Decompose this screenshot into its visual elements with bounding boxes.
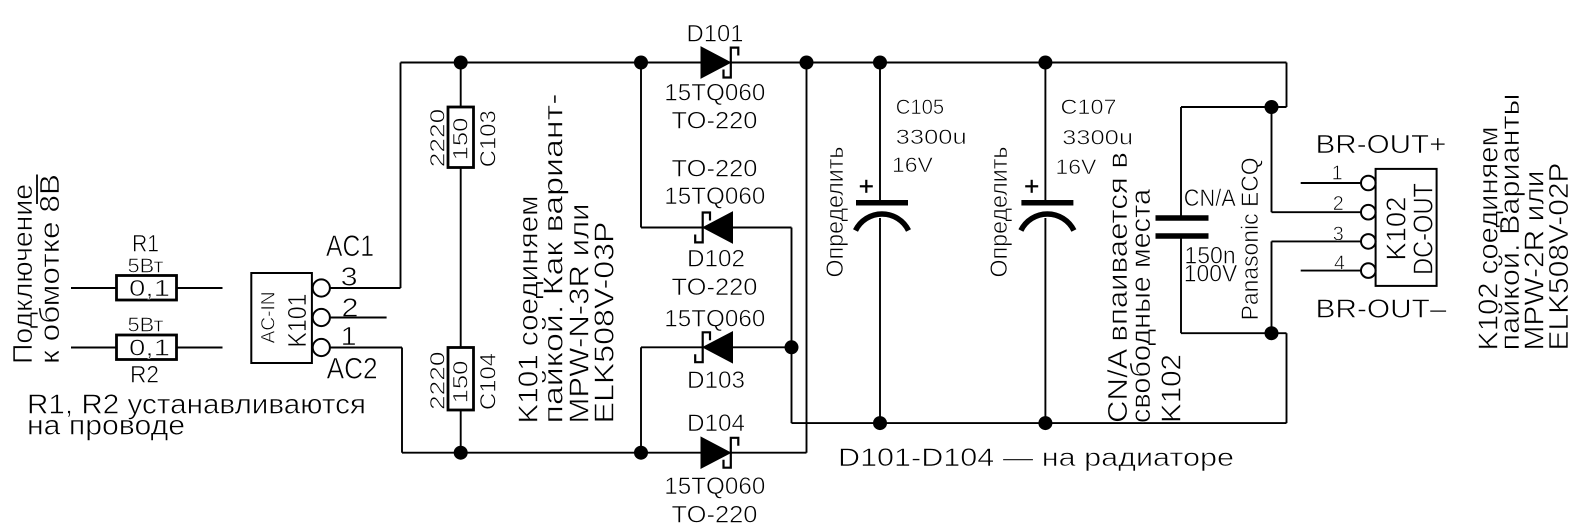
plus sign of C105 bbox=[860, 185, 873, 187]
svg-text:3300u: 3300u bbox=[1062, 127, 1133, 150]
connector K102 bbox=[1376, 169, 1437, 286]
wire plus rail right corner drop bbox=[1286, 63, 1288, 108]
svg-text:R2: R2 bbox=[130, 362, 159, 389]
diode D101 bbox=[701, 47, 738, 78]
wire R1 left bbox=[71, 287, 117, 289]
junction minus at D103 anode bbox=[785, 340, 799, 354]
svg-text:15TQ060: 15TQ060 bbox=[664, 305, 765, 332]
svg-text:AC2: AC2 bbox=[327, 353, 378, 386]
junction minus rail at C107 bbox=[1038, 416, 1052, 430]
wire C104 bottom lead bbox=[460, 410, 462, 453]
junction at C104 bottom bbox=[454, 446, 468, 460]
svg-text:2: 2 bbox=[1333, 192, 1344, 215]
svg-text:1: 1 bbox=[1332, 162, 1343, 185]
junction minus at K102 pin3 branch bbox=[1265, 326, 1279, 340]
wire R2 left bbox=[71, 347, 117, 349]
resistor R2 bbox=[117, 335, 177, 360]
diode D103 bbox=[695, 332, 732, 363]
svg-text:2220: 2220 bbox=[427, 352, 450, 411]
svg-text:C105: C105 bbox=[896, 96, 945, 119]
svg-text:3: 3 bbox=[341, 262, 358, 292]
capacitor C105 bbox=[856, 200, 908, 206]
diode D102 bbox=[695, 212, 732, 243]
wire to D102 cathode bbox=[641, 227, 703, 229]
svg-text:K101: K101 bbox=[282, 294, 312, 348]
wire plus to CN/A top bbox=[1181, 106, 1287, 108]
junction plus at K102 pin2 branch bbox=[1265, 100, 1279, 114]
svg-text:2220: 2220 bbox=[427, 109, 450, 168]
svg-text:CN/A: CN/A bbox=[1184, 185, 1237, 212]
wire CN/A top lead bbox=[1180, 107, 1182, 216]
wire D103 anode out bbox=[733, 346, 792, 348]
junction plus rail at C105 bbox=[873, 56, 887, 70]
svg-text:C103: C103 bbox=[476, 110, 501, 167]
diode D104 bbox=[701, 437, 738, 468]
svg-text:BR-OUT+: BR-OUT+ bbox=[1316, 129, 1447, 159]
capacitor C107 bbox=[1021, 200, 1073, 206]
wire C107 bottom lead bbox=[1044, 218, 1046, 423]
svg-text:16V: 16V bbox=[1055, 156, 1096, 179]
junction plus rail at D104 riser bbox=[800, 56, 814, 70]
wire AC1 riser bbox=[400, 63, 402, 289]
svg-text:0,1: 0,1 bbox=[129, 334, 170, 360]
svg-text:TO-220: TO-220 bbox=[672, 107, 758, 134]
svg-text:16V: 16V bbox=[892, 154, 933, 177]
svg-text:DC-OUT: DC-OUT bbox=[1408, 183, 1439, 275]
wire C105 bottom lead bbox=[879, 218, 881, 423]
svg-text:R1: R1 bbox=[132, 231, 159, 258]
svg-text:5Вт: 5Вт bbox=[128, 314, 165, 337]
wire D104 riser to cathode bbox=[732, 452, 807, 454]
svg-text:1: 1 bbox=[341, 321, 357, 351]
svg-text:150: 150 bbox=[450, 118, 473, 161]
wire C103 to C104 bbox=[460, 167, 462, 348]
overbar over 8В bbox=[36, 175, 38, 205]
svg-text:AC-IN: AC-IN bbox=[257, 291, 279, 343]
svg-text:D103: D103 bbox=[687, 367, 745, 394]
connector K101 bbox=[251, 273, 312, 363]
wire top rail AC1 bbox=[401, 62, 702, 64]
capacitor CN/A bbox=[1156, 215, 1209, 221]
pin circle 2 of K102 bbox=[1361, 205, 1376, 220]
wire minus vertical bbox=[791, 228, 793, 424]
wire R1 right bbox=[177, 287, 223, 289]
svg-text:D101: D101 bbox=[687, 21, 744, 48]
wire minus rail right corner rise bbox=[1286, 333, 1288, 423]
wire C105 top lead bbox=[879, 63, 881, 201]
svg-text:C104: C104 bbox=[476, 353, 501, 410]
svg-text:D102: D102 bbox=[687, 246, 745, 273]
wire AC2 drop bbox=[401, 348, 403, 453]
wire plus rail top bbox=[732, 62, 1287, 64]
capacitor C104 bbox=[448, 348, 474, 411]
wire K102 pin4 stub bbox=[1301, 270, 1362, 272]
svg-text:D101-D104 — на радиаторе: D101-D104 — на радиаторе bbox=[838, 444, 1234, 472]
svg-text:ELK508V-02P: ELK508V-02P bbox=[1543, 163, 1574, 351]
svg-text:D104: D104 bbox=[687, 410, 745, 437]
wire minus rail bottom bbox=[792, 422, 1287, 424]
wire R2 right bbox=[177, 347, 223, 349]
svg-text:100V: 100V bbox=[1184, 260, 1238, 287]
junction minus rail at C105 bbox=[873, 416, 887, 430]
pin circle 2 of K101 bbox=[313, 309, 330, 326]
wire D104 riser vertical bbox=[806, 63, 808, 453]
plus sign of C107 bbox=[1025, 185, 1038, 187]
svg-text:K102: K102 bbox=[1155, 354, 1186, 423]
svg-text:3: 3 bbox=[1333, 223, 1344, 246]
wire D102 branch vertical bbox=[640, 63, 642, 228]
resistor R1 bbox=[117, 276, 177, 301]
svg-text:свободные места: свободные места bbox=[1125, 188, 1156, 423]
junction at C103 top bbox=[454, 56, 468, 70]
svg-text:0,1: 0,1 bbox=[129, 275, 170, 301]
wire K101 pin1 to AC2 drop bbox=[330, 347, 402, 349]
svg-text:на проводе: на проводе bbox=[27, 410, 185, 441]
svg-text:AC1: AC1 bbox=[326, 230, 374, 263]
junction plus rail at C107 bbox=[1038, 56, 1052, 70]
wire D103 branch vertical bbox=[640, 347, 642, 452]
wire C107 top lead bbox=[1044, 63, 1046, 201]
wire to K102 pin2 bbox=[1272, 211, 1362, 213]
svg-text:15TQ060: 15TQ060 bbox=[664, 80, 765, 107]
wire K102 pin1 stub bbox=[1301, 182, 1362, 184]
svg-text:TO-220: TO-220 bbox=[672, 501, 758, 528]
svg-text:15TQ060: 15TQ060 bbox=[664, 473, 765, 500]
wire to D103 cathode bbox=[641, 346, 703, 348]
wire minus branch up to pin3 bbox=[1271, 241, 1273, 333]
svg-text:4: 4 bbox=[1334, 252, 1345, 275]
junction at D102 branch top bbox=[634, 56, 648, 70]
wire D102 anode out bbox=[733, 227, 792, 229]
svg-text:3300u: 3300u bbox=[896, 126, 967, 149]
svg-text:TO-220: TO-220 bbox=[672, 156, 758, 183]
wire plus branch down to pin2 bbox=[1271, 107, 1273, 212]
wire K101 pin2 stub bbox=[330, 317, 387, 319]
pin circle 3 of K102 bbox=[1361, 234, 1376, 249]
wire minus to CN/A bottom bbox=[1181, 332, 1287, 334]
pin circle 1 of K101 bbox=[313, 339, 330, 356]
junction at D103 branch bottom bbox=[634, 446, 648, 460]
wire AC2 bottom run bbox=[402, 452, 702, 454]
pin circle 3 of K101 bbox=[313, 279, 330, 296]
svg-text:к обмотке 8В: к обмотке 8В bbox=[34, 174, 65, 364]
pin circle 4 of K102 bbox=[1361, 263, 1376, 278]
wire K101 pin3 to AC1 riser bbox=[330, 287, 401, 289]
svg-text:150: 150 bbox=[450, 361, 473, 404]
svg-text:TO-220: TO-220 bbox=[672, 274, 758, 301]
svg-text:Panasonic ECQ: Panasonic ECQ bbox=[1237, 157, 1264, 320]
svg-text:BR-OUT–: BR-OUT– bbox=[1316, 294, 1448, 324]
wire C103 top lead bbox=[460, 63, 462, 108]
wire to K102 pin3 bbox=[1272, 240, 1362, 242]
svg-text:15TQ060: 15TQ060 bbox=[664, 183, 765, 210]
svg-text:ELK508V-03P: ELK508V-03P bbox=[589, 221, 620, 423]
svg-text:C107: C107 bbox=[1061, 96, 1117, 119]
svg-text:Определить: Определить bbox=[822, 147, 849, 278]
svg-text:Определить: Определить bbox=[986, 147, 1013, 278]
capacitor C103 bbox=[448, 107, 474, 168]
wire CN/A bottom lead bbox=[1180, 239, 1182, 334]
pin circle 1 of K102 bbox=[1361, 176, 1376, 191]
